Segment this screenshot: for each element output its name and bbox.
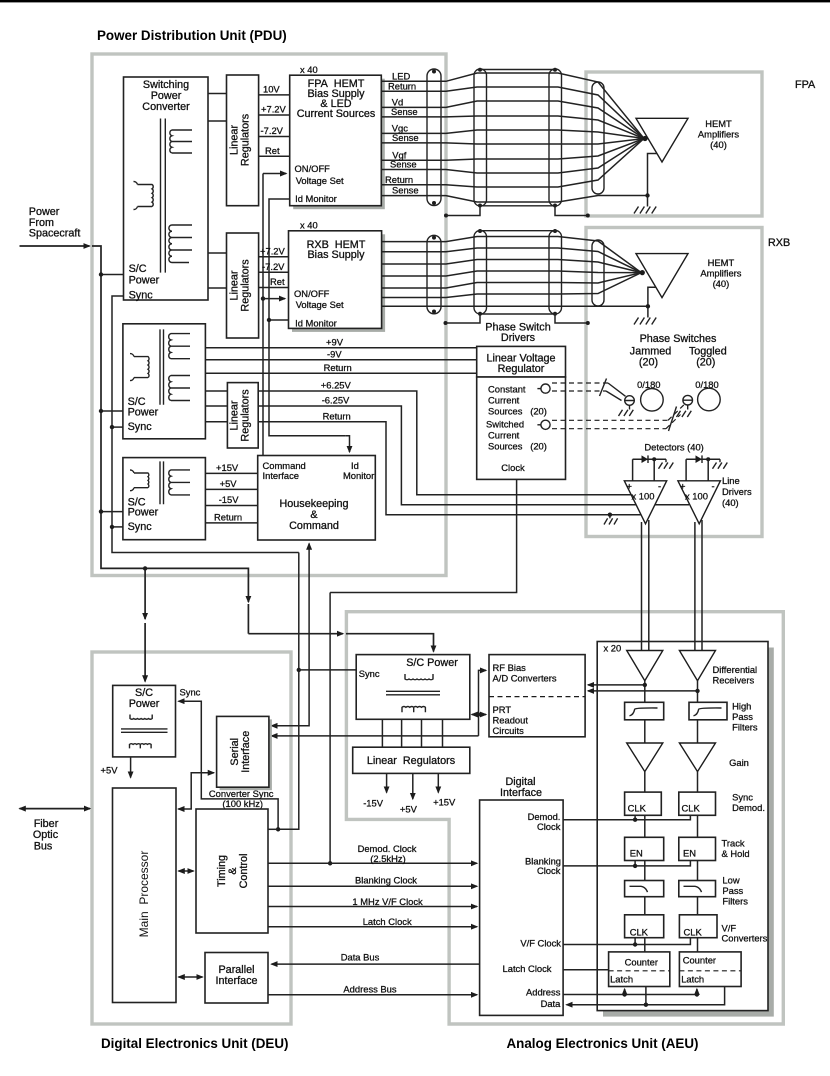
- svg-text:(40): (40): [710, 139, 727, 150]
- svg-text:Converter: Converter: [142, 101, 190, 113]
- wire address distribution: [563, 994, 697, 996]
- detector input wires: [633, 459, 709, 481]
- svg-text:Pass: Pass: [722, 885, 743, 896]
- wire pair left to AEU: [642, 520, 649, 651]
- wires TB3 to housekeeping: [205, 472, 257, 474]
- HEMT amplifier RXB: [636, 254, 688, 298]
- svg-text:Id Monitor: Id Monitor: [295, 318, 337, 329]
- gain amp left: [627, 743, 663, 772]
- VF converter right: [679, 915, 717, 938]
- svg-text:-: -: [658, 481, 661, 492]
- connector stadium 3 RXB: [549, 231, 562, 315]
- fiber optic bus arrow: [20, 808, 91, 810]
- ground FPA: [634, 207, 656, 214]
- svg-text:(40): (40): [713, 278, 730, 289]
- wire return to ground: [258, 422, 640, 515]
- phase switches labels: [630, 333, 727, 369]
- transformer AEU secondary: [402, 707, 425, 713]
- linear regulators box AEU: [353, 747, 470, 773]
- svg-text:-: -: [712, 481, 715, 492]
- svg-text:FPA: FPA: [795, 79, 816, 91]
- svg-text:-15V: -15V: [219, 494, 240, 505]
- wire VF clock distribution: [563, 938, 690, 945]
- RXB unit outline: [586, 228, 762, 537]
- transformer T3 primary: [130, 470, 149, 491]
- differential receiver right: [679, 651, 715, 681]
- svg-text:Blanking Clock: Blanking Clock: [355, 875, 417, 886]
- wire RXB Id monitor: [269, 319, 289, 321]
- wire Ret RXB: [259, 287, 289, 289]
- output arrows -15V +5V +15V: [386, 773, 388, 792]
- svg-text:A/D Converters: A/D Converters: [493, 673, 557, 684]
- converter sync label: [209, 788, 274, 809]
- wire 1MHz VF clock: [268, 906, 477, 908]
- wire bus1 to DEU drop: [143, 566, 147, 570]
- gain amp right: [679, 743, 715, 772]
- svg-text:Power Distribution Unit (PDU): Power Distribution Unit (PDU): [97, 28, 287, 43]
- svg-text:HEMT: HEMT: [708, 257, 735, 268]
- wire ON/OFF branch to RXB: [261, 296, 265, 300]
- wire -9V: [205, 359, 476, 361]
- svg-text:Interface: Interface: [263, 470, 299, 481]
- wire 10V: [259, 94, 290, 96]
- shield bracket right: [555, 206, 588, 216]
- svg-text:Latch Clock: Latch Clock: [503, 963, 552, 974]
- svg-text:+5V: +5V: [400, 804, 418, 815]
- wire +9V: [205, 347, 476, 349]
- svg-text:Sync: Sync: [129, 290, 154, 302]
- sync demod right: [679, 792, 716, 815]
- low pass filter right: [679, 881, 716, 897]
- svg-text:10V: 10V: [263, 84, 280, 95]
- svg-text:Power: Power: [129, 698, 160, 710]
- wire rxb6: [382, 273, 642, 298]
- svg-text:EN: EN: [683, 848, 696, 859]
- RF bias box: [489, 655, 585, 737]
- svg-text:Power: Power: [128, 507, 159, 519]
- svg-text:x 100: x 100: [685, 491, 708, 502]
- svg-text:Command: Command: [289, 520, 339, 532]
- svg-text:Interface: Interface: [500, 787, 542, 799]
- svg-text:Drivers: Drivers: [501, 332, 536, 344]
- svg-text:Readout: Readout: [493, 715, 529, 726]
- svg-text:& Hold: & Hold: [722, 848, 750, 859]
- linear regulators LR1: [227, 75, 259, 206]
- transformer T2 primary: [130, 354, 149, 381]
- svg-text:Main Processor: Main Processor: [137, 851, 151, 938]
- svg-text:Sense: Sense: [391, 106, 418, 117]
- wire serial link to RF bias: [272, 735, 479, 737]
- serial interface box: [220, 719, 272, 790]
- wire Vgf: [381, 139, 644, 161]
- wire LED: [381, 73, 644, 139]
- svg-text:+5V: +5V: [220, 478, 238, 489]
- wire MP to TC: [179, 870, 194, 872]
- svg-text:Id Monitor: Id Monitor: [295, 193, 337, 204]
- connector stadium 4: [592, 82, 604, 194]
- wire hpf to gain: [645, 720, 698, 743]
- svg-text:CLK: CLK: [684, 927, 703, 938]
- S/C power box DEU: [113, 685, 176, 757]
- connector stadium 3: [549, 69, 562, 206]
- shield bracket left RXB: [444, 321, 448, 325]
- wire vf to counter: [645, 938, 698, 952]
- node sync bus2: [112, 296, 299, 553]
- phase switch jammed input: [625, 396, 635, 406]
- power input wire: [20, 245, 90, 247]
- svg-text:-9V: -9V: [327, 348, 342, 359]
- svg-text:CLK: CLK: [630, 927, 649, 938]
- current source symbol 1: [541, 384, 550, 393]
- svg-text:Latch Clock: Latch Clock: [363, 916, 412, 927]
- svg-text:Sync: Sync: [128, 421, 153, 433]
- svg-text:Control: Control: [238, 854, 250, 889]
- svg-text:Constant: Constant: [488, 384, 526, 395]
- svg-text:x 40: x 40: [300, 220, 318, 231]
- housekeeping and command box: [258, 456, 376, 541]
- wire PRT arrows: [479, 714, 487, 716]
- wire RXB amp ground: [648, 287, 656, 317]
- high pass filter left: [625, 702, 664, 720]
- detector diode right: [686, 458, 720, 460]
- digital interface box: [480, 800, 563, 1015]
- wire demod to track: [645, 815, 698, 837]
- ground RXB: [634, 318, 656, 325]
- line drivers label: [722, 475, 752, 508]
- digital interface label: [500, 776, 542, 799]
- connector stadium 4 RXB: [592, 240, 604, 306]
- wire rxb3: [382, 260, 642, 273]
- wire demod clock: [268, 862, 477, 864]
- svg-text:Latch: Latch: [681, 973, 704, 984]
- svg-text:Voltage Set: Voltage Set: [296, 175, 344, 186]
- wire FPA amp ground: [648, 154, 657, 207]
- transformer T3 secondary: [169, 470, 190, 495]
- wires converter to regulators: [382, 719, 442, 747]
- wire Ret: [259, 155, 290, 157]
- svg-text:Converters: Converters: [722, 933, 768, 944]
- RXB HEMT bias supply box: [292, 234, 385, 332]
- transformer T1 core: [161, 119, 166, 273]
- wire command link HK to serial interface: [272, 544, 310, 726]
- svg-text:Data Bus: Data Bus: [341, 952, 380, 963]
- wire demod clock distribution: [563, 815, 690, 819]
- wire pair right to AEU: [695, 520, 702, 651]
- differential receiver left: [627, 651, 663, 681]
- svg-text:+15V: +15V: [216, 462, 239, 473]
- svg-text:Digital Electronics Unit (DEU): Digital Electronics Unit (DEU): [101, 1036, 289, 1051]
- svg-text:HEMT: HEMT: [705, 118, 732, 129]
- wire +7.2V RXB: [259, 256, 289, 258]
- svg-text:Clock: Clock: [501, 462, 525, 473]
- svg-text:Regulators: Regulators: [240, 389, 252, 442]
- connector stadium 1: [427, 69, 441, 206]
- svg-text:PRT: PRT: [493, 704, 512, 715]
- svg-text:Bus: Bus: [34, 841, 53, 853]
- wire TB2 ports to buses: [101, 410, 123, 412]
- connector stadium 2: [474, 69, 487, 206]
- svg-text:Power: Power: [128, 407, 159, 419]
- svg-text:-7.2V: -7.2V: [261, 125, 284, 136]
- wire Vd sense: [381, 116, 644, 139]
- connector stadium 2 RXB: [474, 231, 487, 315]
- wire rxb1: [382, 237, 642, 273]
- wire LED return: [381, 87, 644, 139]
- counter latch left: [609, 952, 670, 987]
- svg-text:Counter: Counter: [683, 955, 716, 966]
- wire RF bias feedback left: [588, 681, 645, 703]
- wire AEU sync branch: [297, 668, 301, 672]
- svg-text:Current Sources: Current Sources: [297, 108, 376, 120]
- svg-text:EN: EN: [630, 848, 643, 859]
- svg-text:Phase Switches: Phase Switches: [640, 333, 717, 345]
- wire RF bias feedback right: [588, 681, 698, 703]
- svg-text:Sync: Sync: [128, 521, 153, 533]
- svg-text:Amplifiers: Amplifiers: [698, 129, 739, 140]
- svg-text:Sense: Sense: [392, 132, 419, 143]
- inner chain box shadow: [603, 648, 774, 1017]
- svg-text:Spacecraft: Spacecraft: [29, 228, 81, 240]
- wire SPC S/C power port: [101, 274, 124, 276]
- S/C power box AEU: [356, 655, 470, 720]
- HEMT amplifier FPA: [636, 118, 688, 162]
- svg-text:Address Bus: Address Bus: [343, 983, 396, 994]
- svg-text:Sync: Sync: [180, 687, 201, 698]
- transformer T1 upper secondary: [170, 130, 192, 153]
- svg-text:x 100: x 100: [632, 491, 655, 502]
- svg-text:Interface: Interface: [240, 731, 252, 773]
- wire rxb5: [382, 273, 642, 288]
- svg-text:Current: Current: [488, 430, 520, 441]
- svg-text:Linear Regulators: Linear Regulators: [367, 755, 456, 767]
- svg-text:Sense: Sense: [390, 159, 417, 170]
- svg-text:Bias Supply: Bias Supply: [307, 249, 365, 261]
- phase switch toggled input: [683, 395, 693, 405]
- phase switch jammed: [641, 389, 664, 412]
- svg-text:(20): (20): [696, 357, 715, 369]
- sync demod left: [625, 792, 662, 815]
- svg-text:Amplifiers: Amplifiers: [700, 268, 741, 279]
- svg-text:Line: Line: [722, 475, 740, 486]
- linear voltage regulator box: [477, 346, 566, 377]
- wire lpf to vf: [645, 897, 698, 915]
- svg-text:Ret: Ret: [270, 276, 285, 287]
- wire -7.2V RXB: [259, 271, 289, 273]
- svg-text:Address: Address: [526, 987, 561, 998]
- wire ON/OFF bus to FPA: [263, 173, 286, 175]
- svg-text:Power: Power: [129, 275, 160, 287]
- wire gain to demod: [645, 772, 698, 793]
- wire address bus: [268, 994, 477, 996]
- svg-text:Sync: Sync: [359, 668, 380, 679]
- switching power converter box: [124, 77, 209, 300]
- wire Vd: [381, 101, 644, 139]
- svg-text:(20): (20): [639, 357, 658, 369]
- svg-text:Track: Track: [722, 838, 745, 849]
- svg-text:Demod.: Demod.: [732, 802, 765, 813]
- shield bracket left: [444, 214, 448, 218]
- high pass filter right: [689, 702, 727, 720]
- svg-text:Clock: Clock: [537, 821, 561, 832]
- svg-text:Clock: Clock: [537, 865, 561, 876]
- svg-text:(2.5kHz): (2.5kHz): [370, 853, 405, 864]
- phase switch toggled: [698, 388, 721, 411]
- shield bracket right RXB: [555, 314, 588, 323]
- track and hold right: [679, 837, 716, 860]
- wire blanking clock: [268, 885, 477, 887]
- wires TB2 to LR3: [205, 391, 227, 422]
- svg-text:Interface: Interface: [215, 975, 257, 987]
- svg-text:ON/OFF: ON/OFF: [294, 288, 330, 299]
- svg-text:(40): (40): [722, 497, 739, 508]
- main processor box: [113, 788, 177, 1003]
- wire data readback: [567, 987, 725, 1005]
- PDU unit outline: [92, 54, 446, 576]
- wire Return: [205, 372, 476, 374]
- svg-text:+5V: +5V: [101, 765, 119, 776]
- linear regulators LR2: [227, 233, 259, 338]
- wire rxb return: [382, 305, 648, 307]
- VF converter left: [625, 915, 664, 938]
- wire track to lpf: [645, 861, 698, 881]
- svg-text:Counter: Counter: [625, 956, 658, 967]
- wire -7.2V: [259, 136, 290, 138]
- wire MP to PI: [179, 976, 203, 978]
- svg-text:-7.2V: -7.2V: [262, 261, 285, 272]
- transformer DEU core: [121, 729, 168, 732]
- svg-text:Filters: Filters: [732, 722, 758, 733]
- wire latch clock: [563, 969, 609, 971]
- svg-text:RXB: RXB: [768, 237, 790, 249]
- wire rxb4: [382, 271, 642, 276]
- svg-text:x 40: x 40: [300, 64, 318, 75]
- svg-text:S/C Power: S/C Power: [406, 657, 458, 669]
- transformer T1 lower secondary: [169, 225, 192, 263]
- svg-text:Latch: Latch: [610, 973, 633, 984]
- transformer T1 primary: [134, 181, 154, 209]
- amplifier x100 left: [624, 481, 666, 524]
- svg-text:+9V: +9V: [326, 336, 344, 347]
- svg-text:Return: Return: [214, 512, 242, 523]
- AEU unit outline: [346, 612, 783, 1024]
- wire sync feed to AEU converter: [248, 633, 343, 635]
- counter latch right: [679, 952, 741, 987]
- wires SPC to LR1: [208, 94, 227, 122]
- svg-text:Analog Electronics Unit (AEU): Analog Electronics Unit (AEU): [507, 1036, 699, 1051]
- transformer box TB3: [123, 458, 205, 540]
- svg-text:Optic: Optic: [33, 829, 59, 841]
- svg-text:Current: Current: [488, 395, 520, 406]
- DEU unit outline: [92, 652, 291, 1024]
- dashed switched current lines: [552, 420, 668, 428]
- svg-text:+15V: +15V: [433, 797, 456, 808]
- svg-text:+6.25V: +6.25V: [321, 380, 352, 391]
- node ON/OFF bus: [262, 174, 264, 456]
- svg-text:Return: Return: [388, 80, 416, 91]
- wire -6.25V: [258, 406, 689, 505]
- svg-text:Pass: Pass: [732, 711, 753, 722]
- svg-text:1 MHz V/F Clock: 1 MHz V/F Clock: [352, 896, 423, 907]
- wire +7.2V: [259, 114, 290, 116]
- svg-text:0/180: 0/180: [637, 379, 660, 390]
- svg-text:Voltage Set: Voltage Set: [296, 299, 344, 310]
- svg-text:Regulators: Regulators: [240, 113, 252, 166]
- svg-text:Sources (20): Sources (20): [488, 406, 547, 417]
- transformer T3 core: [160, 461, 164, 504]
- transformer AEU primary: [405, 674, 433, 680]
- wire Vgc: [381, 130, 644, 139]
- wire return sense: [381, 196, 647, 203]
- amplifier x100 right: [678, 481, 721, 524]
- wire pair stubs into box: [642, 642, 703, 651]
- svg-text:Sense: Sense: [392, 185, 419, 196]
- FPA HEMT bias supply box: [293, 79, 385, 210]
- inner chain box: [597, 642, 768, 1011]
- svg-text:+7.2V: +7.2V: [261, 104, 287, 115]
- top rule: [0, 0, 830, 2]
- svg-text:High: High: [732, 701, 751, 712]
- wire demod clock riser C: [329, 593, 331, 864]
- transformer T2 core: [160, 329, 164, 404]
- wire +6.25V: [258, 391, 631, 495]
- transformer T2 secondaries: [169, 334, 190, 359]
- node power bus1: [92, 246, 248, 602]
- node Id monitor bus: [269, 199, 346, 436]
- svg-text:Regulators: Regulators: [240, 259, 252, 312]
- svg-text:+7.2V: +7.2V: [260, 245, 286, 256]
- phase switch drivers label: [485, 322, 550, 345]
- wire Vgc sense: [381, 139, 644, 145]
- current sources box: [477, 377, 566, 479]
- svg-text:Circuits: Circuits: [493, 725, 525, 736]
- svg-text:Monitor: Monitor: [343, 470, 374, 481]
- svg-text:V/F Clock: V/F Clock: [520, 937, 561, 948]
- timing and control box: [196, 809, 268, 933]
- svg-text:Switched: Switched: [486, 419, 524, 430]
- wire clock down: [330, 479, 516, 592]
- node converter sync net: [179, 553, 299, 830]
- svg-text:Regulator: Regulator: [498, 363, 545, 375]
- svg-text:Return: Return: [323, 410, 351, 421]
- svg-text:(100 kHz): (100 kHz): [222, 798, 263, 809]
- svg-text:CLK: CLK: [628, 803, 647, 814]
- svg-text:Gain: Gain: [729, 757, 749, 768]
- parallel interface box: [205, 953, 268, 1004]
- svg-text:ON/OFF: ON/OFF: [295, 163, 331, 174]
- cable bundle outline RXB: [480, 231, 555, 314]
- dashed constant current lines: [552, 383, 608, 391]
- track and hold left: [625, 837, 664, 860]
- svg-text:-15V: -15V: [363, 798, 384, 809]
- svg-text:Receivers: Receivers: [713, 675, 755, 686]
- svg-text:Drivers: Drivers: [722, 486, 752, 497]
- current source symbol 2: [541, 420, 550, 429]
- svg-text:CLK: CLK: [682, 803, 701, 814]
- connector stadium 1 RXB: [427, 235, 441, 313]
- linear regulators LR3: [227, 383, 258, 448]
- svg-text:-6.25V: -6.25V: [322, 395, 350, 406]
- ground return: [604, 515, 618, 525]
- power input label: [29, 206, 81, 240]
- low pass filter left: [625, 881, 664, 897]
- svg-text:Filters: Filters: [722, 896, 748, 907]
- wire rxb2: [382, 248, 642, 273]
- transformer AEU core: [386, 691, 440, 695]
- svg-text:Low: Low: [722, 875, 739, 886]
- svg-text:Sync: Sync: [732, 792, 753, 803]
- wire return: [381, 139, 644, 188]
- wire MP serial link: [178, 773, 214, 809]
